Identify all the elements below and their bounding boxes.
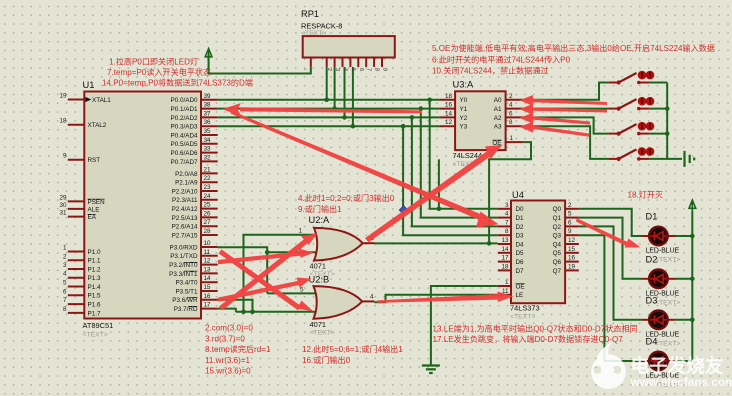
U4 pin name labels D0-D7 Q0-Q7 OE LE: [516, 206, 562, 299]
svg-text:16: 16: [445, 102, 453, 109]
wire P3.7 jog: [218, 309, 236, 312]
LED D4: [642, 337, 681, 389]
wire U3 A2 to switch SW3: [522, 117, 608, 133]
svg-text:P1.3: P1.3: [88, 275, 101, 282]
U4 pin number labels: [501, 202, 575, 295]
svg-text:D5: D5: [516, 250, 525, 257]
ground U4 OE: [422, 366, 440, 374]
svg-text:D4: D4: [516, 241, 525, 248]
red annotation arrows: [218, 95, 641, 312]
svg-text:4: 4: [370, 293, 374, 300]
svg-text:XTAL1: XTAL1: [92, 97, 111, 104]
wire U4 Q2 to LED D3: [579, 226, 642, 319]
U1 right pin stubs (pins 39-32,21-28,10-17): [201, 100, 218, 309]
svg-text:25: 25: [204, 202, 212, 209]
svg-text:10: 10: [204, 240, 212, 247]
svg-text:15.wr(3.6)=0: 15.wr(3.6)=0: [205, 367, 251, 376]
svg-text:14.P0=temp,P0将数据送到74LS373的D端: 14.P0=temp,P0将数据送到74LS373的D端: [102, 78, 253, 88]
svg-text:D4: D4: [646, 337, 658, 347]
svg-text:2: 2: [568, 202, 572, 209]
svg-text:P2.0/A8: P2.0/A8: [175, 171, 198, 178]
wire LED D2 to VCC bus: [676, 278, 693, 280]
svg-text:U1: U1: [83, 80, 95, 90]
svg-text:P0.4/AD4: P0.4/AD4: [171, 132, 198, 139]
svg-text:18: 18: [59, 118, 67, 125]
node com split junction: [265, 250, 270, 255]
svg-text:Q2: Q2: [553, 224, 562, 231]
arrow A7 to U2:A pin2: [218, 252, 301, 265]
svg-text:27: 27: [204, 219, 212, 226]
svg-text:Y1: Y1: [460, 106, 468, 113]
svg-text:RP1: RP1: [301, 9, 319, 19]
svg-text:26: 26: [204, 210, 212, 217]
svg-text:<TEXT>: <TEXT>: [83, 332, 108, 339]
svg-text:D1: D1: [516, 215, 525, 222]
svg-text:5: 5: [300, 286, 304, 293]
svg-text:23: 23: [204, 184, 212, 191]
switch SW4: [608, 147, 654, 161]
node RP1-P0.0 junction: [324, 98, 329, 103]
svg-text:5: 5: [63, 280, 67, 287]
wire RP1 pin2 pullup to P0.0: [326, 67, 328, 100]
svg-text:12: 12: [445, 119, 453, 126]
wire P0.0 drop to U4 D0: [430, 100, 498, 209]
node P0.2 drop junction: [410, 115, 415, 120]
wire U2:B output jog to U4 LE: [375, 295, 498, 302]
svg-text:8.temp读完后rd=1: 8.temp读完后rd=1: [205, 344, 271, 354]
wire com to U2:B pin5: [267, 292, 315, 294]
svg-text:8: 8: [63, 306, 67, 313]
svg-text:38: 38: [204, 102, 212, 109]
wire P0.3 net U1 to U3 Y3: [218, 125, 440, 127]
svg-text:4: 4: [509, 102, 513, 109]
svg-text:U3:A: U3:A: [453, 80, 474, 90]
svg-text:14: 14: [204, 275, 212, 282]
svg-text:www.elecfans.com: www.elecfans.com: [630, 375, 732, 389]
svg-text:16: 16: [204, 293, 212, 300]
svg-text:15: 15: [568, 246, 576, 253]
svg-text:P2.1/A9: P2.1/A9: [175, 180, 198, 187]
svg-text:5.OE为使能端,低电平有效;高电平输出三态,3输出0给OE: 5.OE为使能端,低电平有效;高电平输出三态,3输出0给OE,开启74LS224…: [432, 43, 715, 53]
red tutorial annotation texts 1-18: [102, 43, 715, 376]
svg-text:21: 21: [204, 166, 212, 173]
svg-text:6: 6: [63, 288, 67, 295]
node RP1-P0.1 junction: [332, 106, 337, 111]
node RP1-P0.2 junction: [342, 115, 347, 120]
svg-text:17: 17: [501, 255, 509, 262]
svg-text:7.temp=P0读入开关电平状态: 7.temp=P0读入开关电平状态: [107, 67, 211, 77]
wire SW3 to bus: [650, 133, 668, 135]
node OE riser junction: [487, 241, 492, 246]
node RP1-P0.3 junction: [351, 124, 356, 129]
svg-text:<TEXT>: <TEXT>: [301, 30, 326, 37]
wire P0.1 drop to U4 D1: [421, 109, 498, 218]
svg-text:Q7: Q7: [553, 268, 562, 275]
svg-text:A1: A1: [494, 106, 502, 113]
wire U4 Q0 to LED D1: [579, 209, 642, 236]
svg-text:12.此时5=0;6=1;或门4输出1: 12.此时5=0;6=1;或门4输出1: [302, 344, 403, 354]
svg-text:15: 15: [204, 284, 212, 291]
svg-text:P3.6/WR: P3.6/WR: [172, 297, 198, 304]
svg-text:P3.0/RXD: P3.0/RXD: [170, 244, 198, 251]
arrow A6 P3.7 to U2:A pin1: [219, 239, 308, 310]
RP1 pin number labels: [303, 66, 388, 72]
svg-text:18: 18: [501, 263, 509, 270]
svg-text:31: 31: [59, 210, 67, 217]
arrow S1 at U3 A0: [532, 99, 607, 105]
svg-text:10.关闭74LS244，禁止数据通过: 10.关闭74LS244，禁止数据通过: [432, 66, 549, 76]
arrow A8 to U2:B pin5: [218, 281, 299, 302]
svg-text:2: 2: [63, 253, 67, 260]
U3 pin stubs (18,16,14,12 / 2,4,6,8,1): [439, 100, 523, 142]
watermark elecfans: [591, 342, 732, 390]
svg-text:16.或门输出0: 16.或门输出0: [302, 355, 351, 365]
svg-text:D3: D3: [516, 233, 525, 240]
svg-text:Q5: Q5: [553, 250, 562, 257]
svg-text:<TEXT>: <TEXT>: [510, 314, 535, 321]
node rd riser junction: [241, 310, 246, 315]
svg-text:6: 6: [568, 219, 572, 226]
svg-text:P2.5/A13: P2.5/A13: [172, 215, 198, 222]
svg-text:1.拉高P0口即关闭LED灯: 1.拉高P0口即关闭LED灯: [109, 57, 198, 67]
wire SW1 to bus: [650, 82, 668, 84]
node P0.0 drop junction: [427, 98, 432, 103]
svg-text:OE: OE: [516, 283, 525, 290]
wire P3.6 jog: [218, 300, 253, 312]
svg-text:5: 5: [568, 211, 572, 218]
svg-text:3: 3: [63, 262, 67, 269]
svg-text:D2: D2: [646, 254, 658, 264]
svg-text:P1.4: P1.4: [88, 284, 101, 291]
svg-text:9: 9: [63, 153, 67, 160]
svg-text:P0.5/AD5: P0.5/AD5: [171, 141, 198, 148]
node LED bus junction D2: [690, 277, 695, 282]
svg-text:16: 16: [568, 255, 576, 262]
svg-text:12: 12: [204, 258, 212, 265]
wire LED D3 to VCC bus: [676, 319, 693, 321]
LED D2: [642, 254, 681, 306]
svg-text:电子发烧友: 电子发烧友: [631, 356, 724, 377]
svg-text:33: 33: [204, 146, 212, 153]
svg-text:P3.1/TXD: P3.1/TXD: [170, 253, 198, 260]
svg-text:4071: 4071: [310, 262, 326, 271]
svg-text:12: 12: [568, 237, 576, 244]
svg-text:2: 2: [509, 93, 513, 100]
wire U3 OE net riser: [489, 142, 531, 243]
svg-text:11: 11: [204, 249, 211, 256]
svg-text:4: 4: [342, 68, 348, 71]
node OE-D0 junction: [437, 207, 442, 212]
svg-text:Q3: Q3: [553, 233, 562, 240]
arrow A2 to U4 D2: [230, 111, 481, 220]
svg-text:←: ←: [303, 66, 309, 72]
IC U4 74LS373 latch: [510, 190, 565, 321]
svg-text:17.LE发生负跳变，将输入端D0-D7数据锁存进Q0-Q7: 17.LE发生负跳变，将输入端D0-D7数据锁存进Q0-Q7: [433, 334, 624, 344]
svg-text:Q0: Q0: [553, 206, 562, 213]
arrow A3 gate out to U3 OE: [365, 151, 492, 243]
wire P0.2 net U1 to U3 Y2: [218, 116, 440, 118]
svg-text:P1.1: P1.1: [88, 258, 101, 265]
svg-text:8: 8: [509, 119, 513, 126]
svg-text:9: 9: [382, 68, 388, 71]
wire junction dots: [241, 98, 694, 323]
node LED bus junction D1: [690, 234, 695, 239]
svg-text:2.com(3.0)=0: 2.com(3.0)=0: [205, 324, 253, 333]
svg-text:5: 5: [350, 68, 356, 71]
svg-text:ALE: ALE: [88, 206, 100, 213]
svg-text:P1.0: P1.0: [88, 249, 101, 256]
svg-text:P0.2/AD2: P0.2/AD2: [171, 115, 198, 122]
svg-text:7: 7: [63, 297, 67, 304]
svg-text:P2.4/A12: P2.4/A12: [172, 206, 198, 213]
svg-text:RESPACK-8: RESPACK-8: [301, 22, 342, 31]
svg-text:P3.7/RD: P3.7/RD: [174, 306, 198, 313]
svg-text:EA: EA: [88, 214, 97, 221]
node P0.3 drop junction: [401, 124, 406, 129]
svg-text:U2:B: U2:B: [309, 274, 330, 284]
svg-text:18.灯开灭: 18.灯开灭: [628, 190, 664, 200]
wire U3 A1 to switch SW2: [522, 108, 608, 110]
svg-text:<TEXT>: <TEXT>: [310, 330, 335, 337]
svg-text:19: 19: [59, 93, 67, 100]
node P0.1 drop junction: [419, 106, 424, 111]
svg-text:11.wr(3.6)=1: 11.wr(3.6)=1: [205, 356, 251, 365]
svg-text:36: 36: [204, 119, 212, 126]
switch SW3: [608, 122, 654, 136]
U4 pin stubs (D and Q sides): [498, 209, 579, 295]
svg-text:24: 24: [204, 193, 212, 200]
wire com to U2:A pin2: [267, 251, 316, 253]
arrow A4 gate out to U4 LE: [377, 294, 499, 303]
node wr join junction: [250, 310, 255, 315]
svg-text:P0.0/AD0: P0.0/AD0: [171, 97, 198, 104]
svg-text:17: 17: [204, 302, 212, 309]
U3 pin number labels: [445, 93, 514, 142]
wire OE branch to D0 row: [438, 159, 440, 209]
wire U3 A3 to switch SW4: [522, 126, 608, 159]
resistor pack RP1 RESPACK-8: [301, 9, 395, 58]
svg-text:<TEXT>: <TEXT>: [655, 257, 680, 264]
svg-text:34: 34: [204, 137, 212, 144]
wire LED D4 to VCC bus: [676, 360, 693, 362]
svg-text:P2.3/A11: P2.3/A11: [172, 197, 198, 204]
svg-text:P0.7/AD7: P0.7/AD7: [171, 159, 198, 166]
svg-text:29: 29: [59, 194, 67, 201]
svg-text:35: 35: [204, 128, 212, 135]
arrow A9 to LED D1: [576, 218, 628, 246]
svg-text:14: 14: [445, 110, 453, 117]
svg-text:P1.5: P1.5: [88, 293, 101, 300]
U3 pin name labels Y0-Y3 A0-A3 OE: [460, 97, 502, 147]
svg-text:8: 8: [374, 68, 380, 71]
svg-text:6: 6: [509, 110, 513, 117]
svg-text:P1.2: P1.2: [88, 266, 101, 273]
svg-text:4: 4: [505, 211, 509, 218]
wire P0.1 net U1 to U3 Y1: [218, 108, 440, 110]
svg-text:P3.5/T1: P3.5/T1: [175, 288, 198, 295]
wire switch bus to ground: [667, 83, 682, 159]
svg-text:4.此时1=0;2=0;或门3输出0: 4.此时1=0;2=0;或门3输出0: [298, 193, 395, 203]
IC U3:A 74LS244 buffer: [453, 80, 506, 169]
wire VCC to RP1 pin1: [209, 54, 311, 74]
svg-text:RST: RST: [88, 157, 101, 164]
LED D3: [642, 295, 681, 347]
svg-text:P2.2/A10: P2.2/A10: [172, 188, 198, 195]
wire SW2 to bus: [650, 108, 668, 110]
svg-text:Y2: Y2: [460, 115, 468, 122]
svg-text:U2:A: U2:A: [309, 215, 330, 225]
svg-text:Y3: Y3: [460, 124, 468, 131]
wire U2:A output to U4 D4: [375, 242, 498, 244]
LED D1: [642, 212, 681, 264]
IC U1 AT89C51 microcontroller: [83, 80, 202, 339]
svg-text:Q6: Q6: [553, 259, 562, 266]
wire U4 Q1 to LED D2: [579, 218, 642, 279]
svg-text:7: 7: [366, 68, 372, 71]
svg-text:7: 7: [505, 219, 509, 226]
svg-text:32: 32: [204, 154, 212, 161]
wire RP1 pin4 pullup to P0.2: [344, 67, 346, 118]
svg-text:3: 3: [334, 68, 340, 71]
svg-text:P0.1/AD1: P0.1/AD1: [171, 106, 198, 113]
svg-text:1: 1: [505, 279, 509, 286]
svg-text:D6: D6: [516, 259, 525, 266]
RP1 pin stubs (pins 1-9): [311, 58, 382, 67]
svg-text:13: 13: [204, 266, 212, 273]
svg-text:8: 8: [505, 228, 509, 235]
U1 pin number labels: [59, 93, 211, 313]
node switch bus junction SW2: [665, 106, 670, 111]
or-gate U2:A 4071: [299, 215, 375, 278]
svg-text:P1.7: P1.7: [88, 310, 101, 317]
ground switches: [685, 151, 695, 167]
arrow S3 at U3 A2: [532, 116, 590, 124]
svg-text:AT89C51: AT89C51: [83, 321, 114, 330]
or-gate U2:B 4071: [300, 274, 375, 336]
svg-text:D3: D3: [646, 295, 658, 305]
svg-text:14: 14: [501, 246, 509, 253]
svg-text:A2: A2: [494, 115, 502, 122]
svg-text:P2.6/A14: P2.6/A14: [172, 224, 198, 231]
wire U4 OE to ground: [431, 286, 498, 365]
wire P0.2 drop to U4 D2: [412, 117, 498, 226]
svg-text:39: 39: [204, 93, 212, 100]
svg-text:A3: A3: [494, 124, 502, 131]
svg-text:1: 1: [63, 245, 67, 252]
svg-text:6: 6: [358, 68, 364, 71]
arrow S4 at U3 A3: [532, 125, 589, 137]
svg-text:37: 37: [204, 110, 212, 117]
svg-text:3: 3: [505, 202, 509, 209]
svg-text:P1.6: P1.6: [88, 302, 101, 309]
svg-text:U4: U4: [512, 190, 524, 200]
U1 pin name labels: [88, 97, 198, 317]
svg-text:18: 18: [445, 93, 453, 100]
svg-text:A0: A0: [494, 97, 502, 104]
svg-text:6.此时开关的电平通过74LS244传入P0: 6.此时开关的电平通过74LS244传入P0: [432, 55, 571, 65]
svg-text:19: 19: [568, 263, 576, 270]
wire LED D1 to VCC bus: [676, 235, 693, 237]
svg-text:P2.7/A15: P2.7/A15: [172, 232, 198, 239]
svg-text:30: 30: [59, 202, 67, 209]
wire U4 Q3 to LED D4: [579, 235, 642, 361]
U1 left pin stubs (pins 19,18,9,29,30,31,1-8): [68, 100, 85, 313]
wire U3 A0 to switch SW1: [522, 83, 608, 100]
wire rd riser to U2:A pin1: [244, 235, 317, 312]
svg-text:P3.2/INT0: P3.2/INT0: [169, 262, 198, 269]
svg-text:1: 1: [510, 135, 514, 142]
switch SW1: [608, 71, 654, 85]
svg-text:D7: D7: [516, 268, 525, 275]
svg-text:28: 28: [204, 228, 212, 235]
wire RP1 pin3 pullup to P0.1: [334, 67, 336, 109]
wire P3.0 to gates: [218, 247, 268, 293]
svg-text:P0.6/AD6: P0.6/AD6: [171, 150, 198, 157]
svg-text:D1: D1: [646, 212, 658, 222]
svg-text:22: 22: [204, 175, 212, 182]
switch SW2: [608, 97, 654, 111]
svg-text:PSEN: PSEN: [88, 199, 106, 206]
wire LED VCC bus: [691, 212, 693, 362]
svg-text:9: 9: [568, 228, 572, 235]
svg-text:3.rd(3.7)=0: 3.rd(3.7)=0: [205, 334, 245, 343]
svg-text:74LS373: 74LS373: [510, 304, 540, 313]
arrow A1 P0.1: [240, 107, 422, 113]
svg-text:Q4: Q4: [553, 241, 562, 248]
svg-text:P3.3/INT1: P3.3/INT1: [169, 271, 198, 278]
svg-text:P3.4/T0: P3.4/T0: [175, 280, 198, 287]
svg-text:D2: D2: [516, 224, 525, 231]
svg-text:13.LE端为1,为高电平时输出Q0-Q7状态和D0-D7状: 13.LE端为1,为高电平时输出Q0-Q7状态和D0-D7状态相同: [433, 324, 638, 334]
node switch bus junction SW3: [665, 131, 670, 136]
svg-text:LE: LE: [516, 292, 524, 299]
wire wr to U2:B pin6: [236, 311, 315, 313]
wire P0.3 drop to U4 D3: [403, 126, 498, 235]
svg-text:D0: D0: [516, 206, 525, 213]
arrow S2 at U3 A1: [532, 108, 607, 113]
power VCC arrow right: [689, 200, 696, 211]
svg-text:9.或门输出1: 9.或门输出1: [298, 204, 342, 214]
wire RP1 pin5 pullup to P0.3: [352, 67, 354, 126]
svg-text:XTAL2: XTAL2: [88, 122, 107, 129]
arrow A5 P3.0 to U2:B pin6: [219, 249, 301, 310]
svg-text:4071: 4071: [310, 320, 326, 329]
svg-text:1: 1: [299, 228, 303, 235]
svg-text:P0.3/AD3: P0.3/AD3: [171, 124, 198, 131]
svg-text:<TEXT>: <TEXT>: [655, 340, 680, 347]
svg-text:2: 2: [326, 68, 332, 71]
svg-text:Q1: Q1: [553, 215, 562, 222]
svg-text:4: 4: [63, 271, 67, 278]
svg-text:<TEXT>: <TEXT>: [655, 299, 680, 306]
svg-text:13: 13: [501, 237, 509, 244]
node LED bus junction D3: [690, 318, 695, 323]
wire P0.0 net U1 to U3 Y0: [218, 99, 440, 101]
power VCC arrow left: [205, 49, 212, 74]
svg-text:Y0: Y0: [460, 97, 468, 104]
wire SW4 to bus: [650, 158, 668, 160]
node marker blue diamond: [399, 206, 408, 215]
